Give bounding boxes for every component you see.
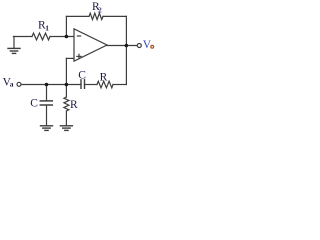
svg-text:V: V xyxy=(143,39,152,51)
svg-text:C: C xyxy=(78,70,86,82)
svg-text:2: 2 xyxy=(98,5,102,14)
svg-text:R: R xyxy=(70,99,78,111)
svg-text:a: a xyxy=(10,79,14,88)
svg-text:R: R xyxy=(100,72,108,84)
svg-text:C: C xyxy=(30,97,38,109)
svg-text:1: 1 xyxy=(45,24,49,33)
